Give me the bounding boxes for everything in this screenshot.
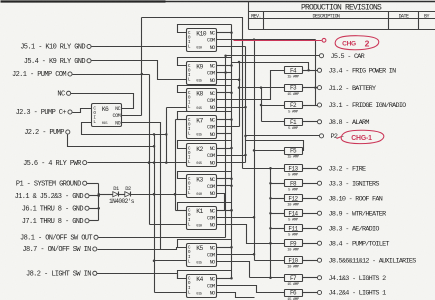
relay K4	[187, 275, 217, 298]
diode D2	[125, 186, 131, 197]
terminal J1.1	[15, 193, 89, 201]
terminal J8.2	[26, 271, 97, 279]
wire P2 feed	[246, 135, 320, 137]
wire fuse F8 output	[303, 183, 318, 185]
wire hat K3 coil-top to NC bus	[178, 172, 233, 181]
wire K7 NO stub	[217, 133, 232, 135]
bracket F3-F1	[260, 88, 263, 122]
wire K9 NO stub	[217, 79, 240, 81]
wire J7.1 stub	[90, 220, 99, 222]
terminal J3.4	[317, 68, 396, 76]
terminal J2.1	[12, 71, 72, 79]
wire ground to diodes	[97, 193, 112, 196]
wire K3 NO to K1 NC	[217, 194, 233, 212]
wire fuse F1 output	[303, 121, 318, 123]
bus 254 main feed	[253, 40, 256, 261]
wire fuse F4 output	[303, 70, 318, 72]
terminal J6.1	[22, 205, 89, 213]
fuse F13	[285, 165, 303, 178]
wire K1 coil-top feed	[176, 210, 187, 212]
wire J5.1 to K10 coil	[92, 46, 187, 48]
terminal J8.10	[317, 195, 382, 203]
wire fuse F6 output	[303, 292, 318, 294]
label 1N4002's	[109, 198, 135, 205]
wire diodes to K3 coil	[131, 193, 187, 196]
terminal J3.3	[317, 180, 379, 188]
terminal J5.4	[24, 58, 91, 66]
wire F1 feed	[262, 121, 285, 123]
scan top border	[1, 1, 435, 3]
wire J2.1 PUMP COM run	[73, 73, 150, 76]
wire battery drop 315.5	[253, 38, 317, 105]
wire K6 coil-bottom	[82, 123, 167, 136]
red change line	[234, 38, 326, 42]
wire K1 NO to F9	[217, 225, 285, 245]
wire K3 COM stub	[217, 185, 233, 188]
wire NC terminal to K6 NC	[71, 94, 134, 109]
terminal J2.2	[24, 129, 70, 137]
wire ground collector vertical	[98, 184, 100, 221]
wire K4 coil-bottom	[155, 292, 187, 294]
wire J8.1 ON/OFF SW OUT run	[99, 237, 226, 239]
wire K10 COM to bus	[217, 39, 316, 41]
wire K5 coil-bottom	[155, 260, 187, 262]
terminal J8.5&6&11&12	[317, 257, 416, 265]
fuse F9	[285, 240, 303, 253]
fuse F7	[285, 275, 303, 288]
wire K6 NO	[122, 123, 161, 250]
terminal P2	[319, 133, 343, 141]
wire K8 NO stub	[217, 107, 246, 109]
relay K1	[187, 207, 217, 230]
wire FRIG aux feed	[232, 61, 310, 72]
wire J5.6 4 RLY PWR run	[88, 161, 187, 164]
wire F3 feed	[240, 86, 285, 89]
terminal J2.3	[16, 109, 72, 117]
wire K8 coil-bottom bus	[165, 108, 186, 164]
wire K2 NO stub	[217, 162, 246, 164]
relay K2	[187, 144, 217, 167]
wire P1 stub	[87, 183, 99, 185]
fuse F14	[285, 210, 303, 223]
terminal J4.2&4	[317, 290, 386, 298]
relay K3	[187, 175, 217, 198]
wire CAR feed	[224, 54, 319, 57]
terminal J8.4	[317, 240, 389, 248]
wire J5.4 to K9 coil	[92, 61, 187, 80]
wire hat K1 coil-top to NC bus	[178, 203, 233, 212]
wire K4 COM to F6	[217, 286, 285, 293]
wire F14 feed	[271, 213, 285, 215]
wire F7 feed	[250, 277, 285, 279]
wire F10 feed	[255, 260, 285, 262]
wire fuse F3 output	[303, 87, 318, 89]
terminal J1.2	[317, 85, 376, 93]
wire hat K5 coil-top to NC bus	[178, 240, 233, 249]
fuse F6	[285, 290, 303, 300]
relay K9	[187, 62, 217, 85]
wire fuse F14 output	[303, 213, 318, 215]
diode D1	[113, 186, 119, 197]
wire J8.2 LIGHT SW IN to K4 coil	[97, 274, 187, 279]
fuse F4	[285, 67, 303, 80]
terminal J5.6	[23, 160, 87, 168]
red note CHG-1	[337, 130, 384, 143]
fuse F12	[285, 195, 303, 208]
terminal J3.1	[317, 102, 406, 110]
bus 239	[238, 63, 241, 127]
terminal NC	[57, 91, 70, 99]
relay K10	[187, 29, 217, 52]
wire J8.7 ON/OFF SW IN to K5 coil	[98, 248, 187, 250]
wire hat K10 coil-top to NC bus	[178, 25, 233, 34]
fuse F1	[285, 119, 303, 132]
wire K6 COM	[122, 115, 142, 117]
wire K5 COM stub	[217, 254, 255, 256]
wire fuse F10 output	[303, 260, 318, 262]
fuse F5	[285, 148, 303, 160]
terminal J8.8	[317, 119, 369, 127]
terminal J8.3	[317, 225, 379, 233]
wire K2 COM stub	[217, 155, 246, 157]
terminal J8.1	[20, 235, 98, 243]
wire hat K4 coil-top to NC bus	[178, 271, 233, 280]
wire top run to bus	[142, 18, 243, 169]
wire F5 feed	[255, 150, 285, 152]
wire K9 COM stub	[217, 72, 232, 74]
wire F8 feed	[271, 183, 285, 185]
terminal P1	[16, 180, 87, 188]
terminal J5.1	[20, 44, 91, 52]
wire hat K9 coil-top to NC bus	[178, 58, 233, 67]
wire K4 NO stub	[217, 293, 255, 298]
wire F13 feed	[243, 167, 285, 170]
wire F2 feed	[262, 105, 285, 107]
terminal J8.9	[317, 210, 386, 218]
wire K8 COM to F4	[217, 71, 285, 100]
bus 245.5	[244, 47, 247, 163]
wire fuse F2 output	[303, 105, 318, 107]
fuse F11	[285, 225, 303, 238]
relay K8	[187, 89, 217, 112]
wire fuse F13 output	[303, 168, 318, 170]
wire fuse F11 output	[303, 228, 318, 230]
wire fuse F12 output	[303, 198, 318, 200]
bracket F13-F9	[269, 169, 272, 279]
wire diode link	[119, 194, 125, 196]
terminal J4.1&3	[317, 275, 386, 283]
relay K7	[187, 116, 217, 139]
wire K1 coil-bottom	[150, 224, 187, 226]
wire K10 NO to bus	[217, 46, 246, 48]
wire J2.2 PUMP run	[68, 135, 156, 148]
wire K6 COM feed vertical	[141, 18, 143, 116]
wire J6.1 stub	[90, 207, 100, 210]
terminal J8.7	[22, 246, 96, 254]
wire K5 NO to F7 feed	[217, 262, 250, 278]
wire fuse F9 output	[303, 243, 318, 245]
relay K6	[92, 104, 122, 127]
bus NC 231.5	[231, 25, 233, 279]
fuse F8	[285, 180, 303, 193]
terminal J7.1	[22, 218, 89, 226]
red note CHG 2	[335, 36, 379, 50]
fuse F10	[285, 257, 303, 270]
wire hat K8 coil-top to NC bus	[178, 86, 233, 95]
wire fuse F7 output	[303, 277, 318, 279]
wire K1 COM stub	[217, 216, 256, 219]
title block PRODUCTION REVISIONS	[249, 2, 435, 30]
wire K7 COM stub	[217, 126, 240, 128]
wire hat K7 coil-top to NC bus	[178, 112, 233, 121]
wire F11 feed	[271, 228, 285, 230]
fuse F2	[285, 102, 303, 115]
wire ground bus vertical	[148, 75, 151, 225]
terminal J5.5	[319, 53, 364, 61]
bus 225.6 K9 COM to SW OUT	[224, 56, 227, 238]
wire F5 loop	[246, 136, 304, 151]
terminal J3.2	[317, 166, 366, 174]
wire J1.1 stub	[90, 195, 100, 198]
wire K7 coil-top feed	[174, 120, 187, 211]
wire hat K2 coil-top to NC bus	[178, 141, 233, 150]
wire pump bus vertical	[153, 135, 156, 293]
relay K5	[187, 244, 217, 267]
wire J2.3 to K6 coil	[73, 109, 92, 113]
wire F12 feed	[271, 198, 285, 200]
fuse F3	[285, 85, 303, 97]
